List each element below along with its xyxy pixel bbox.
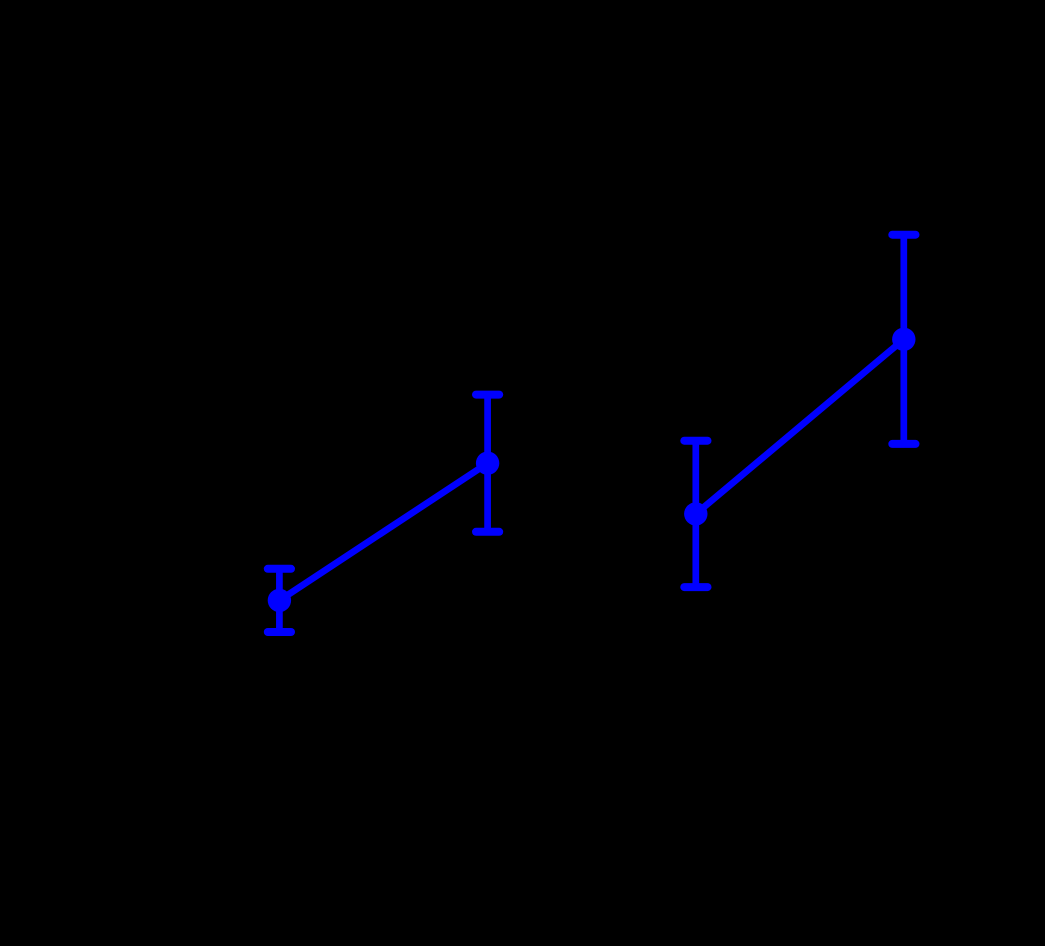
error bar B3 bottom cap	[684, 583, 707, 591]
error bar B2 stem	[484, 395, 491, 532]
error bar B1 stem	[276, 569, 283, 632]
error bar B4 top cap	[892, 231, 915, 239]
error bar B2 bottom cap	[476, 528, 499, 536]
error bar B1 top cap	[268, 565, 291, 573]
marker P1	[268, 589, 291, 612]
error bar B3 top cap	[684, 437, 707, 445]
error bar B1 bottom cap	[268, 628, 291, 636]
marker P2	[476, 452, 499, 475]
error bar B4 stem	[900, 235, 907, 444]
marker P3	[684, 502, 707, 525]
series 1 connecting line P1-P2	[279, 463, 487, 600]
marker P4	[892, 328, 915, 351]
series 2 connecting line P3-P4	[696, 339, 904, 514]
error bar B3 stem	[692, 441, 699, 587]
error bar B2 top cap	[476, 391, 499, 399]
error bar B4 bottom cap	[892, 440, 915, 448]
